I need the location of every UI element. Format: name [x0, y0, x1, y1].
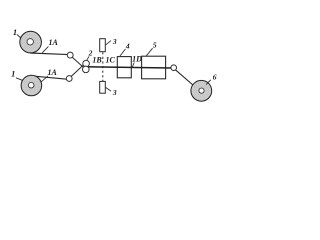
- wire: diagonal web from right roller down to wind-up reel 6: [176, 70, 194, 86]
- right guide roller before winder: [171, 65, 177, 71]
- electrode rectangle 3 (bottom): [100, 81, 106, 93]
- leader for label 3 (bottom): [106, 88, 111, 92]
- leader for label 1D: [132, 63, 134, 67]
- dashed treatment line between rectangles 3: [102, 52, 104, 81]
- svg-text:5: 5: [153, 41, 157, 50]
- reel 1 (bottom left payoff): [21, 75, 42, 96]
- svg-text:4: 4: [125, 41, 130, 50]
- wire: bottom web line from lower reel 1 to bottom guide roller: [31, 76, 69, 80]
- wire: diagonal from top roller down into nip: [72, 57, 85, 69]
- nip roller pair 2 (lower): [83, 66, 90, 73]
- svg-text:1C: 1C: [106, 55, 116, 64]
- svg-text:6: 6: [213, 72, 217, 81]
- wire: main web line through boxes 4 and 5 to right roller: [84, 67, 173, 68]
- leader for label 1 (bottom): [16, 78, 23, 81]
- reel 1 (top left payoff): [20, 31, 42, 53]
- leader for label 3 (top): [106, 41, 111, 45]
- leader for label 1A (top): [42, 46, 48, 52]
- leader for label 5: [146, 48, 152, 56]
- leader for label 2: [87, 56, 89, 60]
- top guide roller: [67, 52, 73, 58]
- leader for label 4: [120, 49, 126, 56]
- reel 6 (wind-up): [191, 80, 212, 101]
- nip roller pair 2 (upper): [83, 60, 90, 67]
- bottom guide roller: [66, 76, 72, 82]
- svg-text:3: 3: [112, 88, 117, 97]
- box 4: [117, 57, 131, 78]
- svg-text:1: 1: [13, 27, 17, 37]
- wire: top web line from reel 1 to top guide roller: [30, 53, 68, 55]
- electrode rectangle 3 (top): [100, 39, 106, 52]
- svg-text:1B: 1B: [92, 56, 102, 65]
- leader for label 1A (bottom): [41, 76, 48, 82]
- svg-text:1D: 1D: [132, 54, 142, 63]
- leader for label 6: [206, 80, 211, 85]
- leader for label 1 (top): [17, 34, 21, 38]
- svg-text:1A: 1A: [49, 38, 59, 47]
- wire: diagonal from bottom roller up into nip: [71, 64, 85, 77]
- svg-text:1: 1: [11, 69, 15, 79]
- svg-text:3: 3: [112, 37, 117, 46]
- box 5: [142, 56, 166, 79]
- svg-text:1A: 1A: [48, 68, 58, 77]
